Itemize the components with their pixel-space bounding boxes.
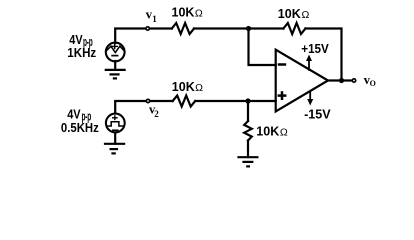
- svg-text:-15V: -15V: [304, 108, 331, 122]
- wire R1 to junction A: [194, 27, 249, 29]
- wire junction A down to inverting input: [249, 29, 276, 66]
- source V2 square (4Vp-p 0.5KHz): [106, 114, 125, 133]
- wire node v2 to resistor R3: [150, 100, 173, 102]
- svg-text:10KΩ: 10KΩ: [256, 124, 288, 138]
- svg-text:+15V: +15V: [301, 42, 329, 56]
- ground stem under source V1: [114, 61, 116, 70]
- node v1 open terminal: [146, 27, 149, 30]
- node vO open terminal: [352, 79, 355, 82]
- svg-text:O: O: [370, 79, 376, 88]
- junction at output feedback tap: [339, 78, 344, 83]
- svg-text:10KΩ: 10KΩ: [278, 7, 310, 21]
- -15V supply arrow: [307, 91, 313, 106]
- ground stem under source V2: [114, 133, 116, 144]
- svg-text:10KΩ: 10KΩ: [172, 5, 203, 19]
- node v2 open terminal: [146, 99, 149, 102]
- wire R2 to output node (right corner): [305, 29, 341, 81]
- wire R4 to ground: [247, 141, 249, 158]
- +15V supply arrow: [306, 55, 312, 71]
- label v1: [146, 8, 157, 24]
- resistor R4 10K (to ground): [244, 121, 252, 141]
- junction B (R3/R4/non-inverting input): [245, 98, 250, 103]
- label vO: [364, 73, 376, 88]
- wire op-amp output to node vO: [328, 79, 352, 81]
- svg-text:0.5KHz: 0.5KHz: [61, 121, 99, 135]
- ground under source V1: [105, 70, 126, 79]
- op-amp U1 triangle: [276, 50, 328, 112]
- svg-text:4V: 4V: [69, 33, 83, 47]
- ground under source V2: [104, 144, 125, 154]
- wire source V1 top to node v1: [115, 29, 145, 44]
- svg-text:2: 2: [154, 109, 159, 119]
- resistor R2 10K (feedback): [283, 23, 305, 34]
- svg-text:1: 1: [152, 14, 157, 24]
- wire junction B down to resistor R4: [247, 101, 249, 121]
- wire junction A to feedback resistor R2: [249, 27, 284, 29]
- label 4Vp-p 0.5KHz: [61, 108, 99, 135]
- junction A (R1/R2/inverting input): [246, 26, 251, 31]
- wire R3 to junction B and non-inverting input: [195, 100, 276, 102]
- op-amp inverting input minus sign: [278, 63, 286, 66]
- wire node v1 to resistor R1: [150, 27, 172, 29]
- svg-text:1KHz: 1KHz: [67, 46, 96, 60]
- wire source V2 top to node v2: [115, 101, 145, 113]
- ground under resistor R4: [237, 157, 258, 166]
- resistor R3 10K (bottom input): [173, 96, 196, 107]
- source V1 sine (4Vp-p 1KHz): [106, 43, 125, 62]
- resistor R1 10K (top input): [172, 23, 194, 34]
- label 4Vp-p 1KHz: [67, 33, 96, 60]
- svg-text:10KΩ: 10KΩ: [172, 80, 203, 94]
- label v2: [149, 103, 159, 120]
- svg-text:4V: 4V: [67, 108, 81, 122]
- op-amp non-inverting input plus sign: [278, 91, 287, 100]
